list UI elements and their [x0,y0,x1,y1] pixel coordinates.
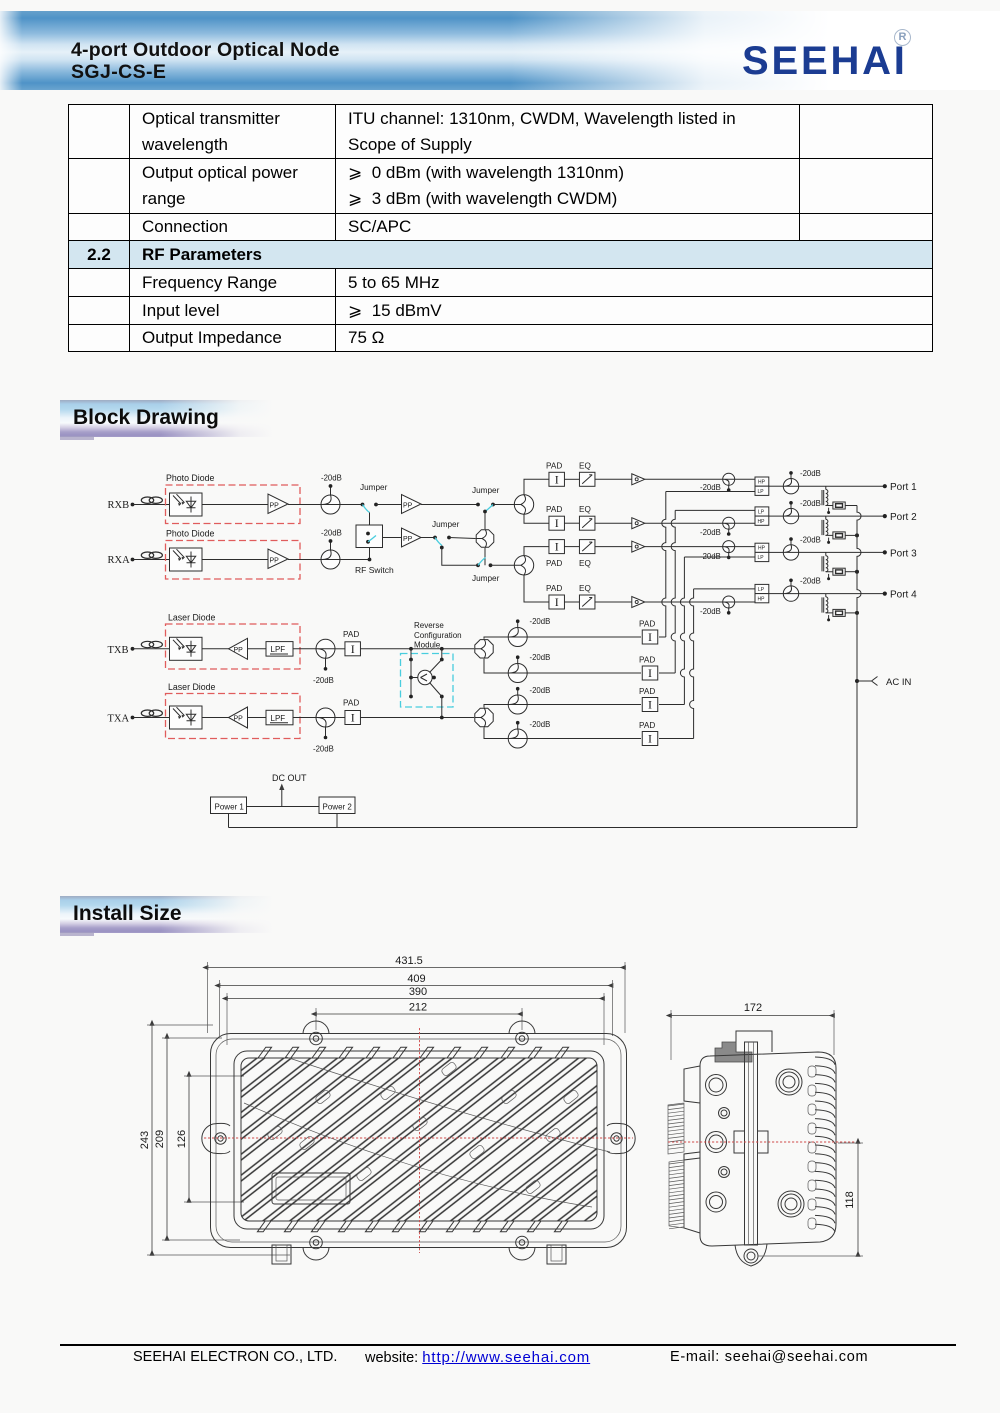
svg-text:Photo Diode: Photo Diode [166,473,215,483]
jumper3 tap dot [440,546,444,550]
AR1 stub [517,622,519,628]
wire jumper2 tap down [484,512,486,530]
DC OUT arrow [279,784,284,807]
dimension 126 [176,1076,189,1202]
svg-text:126: 126 [176,1130,188,1148]
side view right fin stack [815,1057,835,1232]
wire TXB line [133,648,170,650]
wire switch bottom to RXA line [369,548,371,560]
wire amp3 out [645,546,723,548]
att fwd 2 stub dot [727,532,731,536]
side view centerline (red) [668,1141,856,1143]
svg-text:PP: PP [234,647,244,654]
fuse F2 [833,532,845,539]
dimension 118 [844,1143,858,1256]
wire rcm circle to b3 [430,683,442,697]
front view outer shell [211,1034,627,1248]
rcm post a1 [409,658,413,662]
side view small hole lower [719,1167,730,1178]
AR2 stub [517,658,519,664]
wire amp to LPF TXA [248,717,267,719]
att port 2 stub dot [789,501,793,505]
att fwd 3 stub dot [727,556,731,560]
att fwd 1 stub [728,485,730,489]
side view main outline [700,1052,836,1246]
wire PP2 out [288,559,321,561]
laser diode LD1 [170,637,203,660]
wire H2 to AR3 [484,705,508,708]
svg-text:PAD: PAD [546,461,562,470]
extension lines left [147,1025,290,1255]
vent slot tabs bottom row [257,1221,568,1232]
att port 4 stub dot [789,579,793,583]
side view central bar [745,1042,758,1245]
wire PAD-F3 to EQ3 [565,546,580,548]
wire LPF1 to att [293,648,316,650]
wire SP2 up feed [524,547,549,556]
wire RXB input [133,504,170,506]
wire laser TXB to amp [202,648,229,650]
wire EQ3 to amp [595,546,632,548]
att port 4 stub [790,581,792,586]
attenuator rev AR2 -20dB [508,664,527,683]
front view mounting ear bottom-right [509,1236,535,1260]
attenuator rev AR3 -20dB [508,695,527,714]
wire return feed DX1 LP [666,491,755,493]
wire PP4 out [421,537,434,539]
svg-text:-20dB: -20dB [700,483,721,492]
heat sink fins (hatched) [241,1058,597,1221]
pad PAD-R2 [642,666,658,680]
svg-text:390: 390 [409,986,427,998]
low-pass filter LPF1 [266,642,293,657]
svg-text:-20dB: -20dB [530,653,551,662]
small bosses on fins [267,1061,580,1195]
reverse configuration module (cyan dashed box) [401,654,454,708]
svg-text:Laser Diode: Laser Diode [168,682,216,692]
rcm post a2 [409,676,413,680]
amplifier A2 [632,518,645,529]
transformer L2 (power choke) [822,516,833,536]
svg-text:RF Switch: RF Switch [355,565,394,575]
svg-text:-20dB: -20dB [530,617,551,626]
jumper2 post a [476,503,480,507]
svg-text:EQ: EQ [579,584,591,593]
power supply Power 1 [211,797,247,814]
wire switch out [383,537,402,539]
attenuator fwd -20dB 3 [723,541,735,553]
return bus 4 vertical (with hops) [690,589,694,739]
laser diode module TXB (dashed box) [166,624,301,669]
diplexer DX2 [755,507,769,525]
wire att fwd 3 out [735,546,755,548]
side view left stepped face [684,1066,700,1233]
attenuator fwd -20dB 2 [723,517,735,529]
AC bus junction 4 [855,611,859,615]
wire AR4 to PAD [527,738,641,740]
splitter SP2 [514,556,533,575]
svg-text:Port 3: Port 3 [890,548,917,559]
side view left fin band upper [668,1103,684,1154]
node RXA terminal [131,558,135,562]
svg-text:Jumper: Jumper [432,520,460,529]
low-pass filter LPF2 [266,710,293,725]
side view connector boss B [776,1069,802,1095]
svg-text:PP: PP [270,558,280,565]
svg-text:Configuration: Configuration [414,631,462,640]
wire PP1 out [288,504,321,506]
att fwd 4 stub dot [727,611,731,615]
fuse F3 [833,568,845,575]
wire Power1 down [228,814,230,828]
front view mounting ear bottom-left [303,1236,329,1260]
svg-text:PAD: PAD [639,687,655,696]
pad PAD-F4 [549,595,565,609]
wire laser TXA to amp [202,717,229,719]
svg-text:TXA: TXA [108,714,130,725]
side view connector boss A [706,1075,727,1096]
wire H1 to AR1 [484,637,508,639]
rcm post b3 [440,695,444,699]
extension lines top [208,962,626,1045]
wire PAD-F1 to EQ1 [565,478,580,480]
att RXA stub dot [329,539,333,543]
svg-text:RXA: RXA [108,555,131,566]
att port 3 stub [790,540,792,545]
node TXA terminal [131,716,135,720]
laser diode module TXA (dashed box) [166,694,301,739]
dimension 243 [139,1025,152,1255]
return bus 3 vertical (with hops) [680,557,684,705]
choke 1 secondary stub [828,508,830,512]
svg-text:-20dB: -20dB [530,720,551,729]
svg-text:EQ: EQ [579,461,591,470]
optical connector RXB [141,497,162,503]
wire TXA line [133,717,170,719]
wire port 4 line [799,593,884,595]
dimension 409 [220,973,613,986]
side view left fin band lower [669,1160,684,1229]
attenuator TX1 -20dB [316,639,335,658]
front view side boss right [607,1123,635,1153]
att TX1 stub [325,658,327,668]
wire att TX2 out [335,717,345,719]
wire amp2 out [645,522,723,524]
svg-text:Power 2: Power 2 [323,803,353,812]
att port 1 stub dot [789,471,793,475]
wire att fwd 1 out [735,478,755,480]
wire port 1 line [799,485,884,487]
svg-text:409: 409 [407,973,425,985]
choke 2 secondary stub [828,538,830,542]
splitter SP1 [514,495,533,514]
RF switch U1 [356,525,383,548]
transformer L1 (power choke) [822,486,833,506]
AC bus junction 2 [855,533,859,537]
RF switch post b [366,540,370,544]
wire jumper1 to switch [369,513,371,526]
wire DX1 out [769,485,783,487]
wire EQ2 to amp [595,522,632,524]
wire return bus 1 to PAD-R1 [659,636,666,638]
diplexer DX3 [755,543,769,561]
svg-text:TXB: TXB [108,645,129,656]
combiner H2 (TXA reverse) [474,708,493,727]
wire SP1 up feed [524,479,549,495]
att RXB stub dot [329,484,333,488]
AC IN junction [855,679,859,683]
wire return bus 3 to PAD-R3 [659,704,684,706]
dimension 172 [671,1002,834,1016]
svg-text:PP: PP [403,536,413,543]
equalizer EQ1 [579,472,595,486]
svg-text:EQ: EQ [579,559,591,568]
svg-text:Jumper: Jumper [472,486,500,495]
jumper1 post a [361,503,365,507]
jumper1 link (cyan) [363,505,370,513]
wire LPF2 to att [293,717,316,719]
jumper2 tap dot [483,510,487,514]
att TX2 stub [325,727,327,737]
amplifier A3 [632,541,645,552]
svg-text:118: 118 [844,1191,856,1209]
return bus 1 vertical (with hops) [662,492,666,638]
svg-text:PAD: PAD [546,505,562,514]
wire AC IN stub [857,680,871,682]
wire return feed DX3 LP [684,556,755,558]
side view connector boss E [778,1191,804,1217]
wire att TX1 out [335,648,345,650]
svg-text:PAD: PAD [639,620,655,629]
svg-text:243: 243 [139,1131,151,1149]
wire fuse F1 to AC bus [845,505,857,507]
svg-text:Jumper: Jumper [360,483,388,492]
att fwd 1 stub dot [727,488,731,492]
att port 2 stub [790,504,792,509]
wire att RXA out [340,559,369,561]
wire fuse F4 to AC bus [845,612,857,614]
wire amp4 out [645,601,723,603]
att TX2 stub dot [324,736,328,740]
attenuator rev AR4 -20dB [508,729,527,748]
rcm tap TXB b [440,647,444,651]
photo diode D2 [170,548,203,571]
attenuator fwd -20dB 4 [723,596,735,608]
side view top bracket [736,1031,772,1052]
svg-text:DC OUT: DC OUT [272,773,307,783]
choke 1 stub dot [827,511,830,514]
node TXB terminal [131,647,135,651]
svg-text:AC IN: AC IN [886,677,911,688]
svg-text:PAD: PAD [343,630,359,639]
jumper1 post b [374,503,378,507]
svg-text:-20dB: -20dB [800,469,821,478]
side view connector boss D [706,1192,726,1212]
svg-text:-20dB: -20dB [321,474,342,483]
equalizer EQ3 [579,540,595,554]
jumper3 post a [433,536,437,540]
dimension 431.5 [208,955,626,968]
wire rcm circle to b1 [430,660,442,673]
RF switch link (cyan) [368,536,376,542]
wire EQ4 to amp [595,601,632,603]
svg-text:PAD: PAD [546,559,562,568]
op-amp PP3 [402,495,422,514]
svg-text:-20dB: -20dB [800,499,821,508]
wire att RXB out [340,504,361,506]
svg-text:-20dB: -20dB [700,528,721,537]
svg-text:HP: HP [758,546,766,552]
wire fuse F3 to AC bus [845,571,857,573]
fuse F1 [833,502,845,509]
wire H1 to AR2 [484,659,508,673]
svg-text:PP: PP [270,503,280,510]
wire H2 to AR4 [484,728,508,739]
side view fin root comb [808,1066,816,1229]
wire att RXB stub [330,487,332,495]
front view side boss left [202,1123,230,1153]
amplifier A1 [632,474,645,485]
lid swing arc 2 [244,1103,592,1207]
svg-text:-20dB: -20dB [700,607,721,616]
dimension 212 [316,1002,522,1015]
front view centerline vertical (red) [419,1028,421,1253]
AC bus junction 3 [855,570,859,574]
transformer L3 (power choke) [822,552,833,572]
wire rcm drop a [410,649,412,660]
wire jumper3 tap down [442,548,477,566]
wire EQ1 to amp [595,478,632,480]
wire jumper1 to PP3 [376,504,402,506]
wire jumper3 to mid splitter [449,538,476,539]
svg-text:-20dB: -20dB [321,529,342,538]
svg-text:-20dB: -20dB [800,577,821,586]
photo diode module RXB (dashed box) [166,485,301,524]
node RXB terminal [131,503,135,507]
port 1 terminal [883,484,887,488]
wire PAD-T2 to combiner [361,717,475,719]
choke 3 stub dot [827,577,830,580]
svg-text:PAD: PAD [546,584,562,593]
vent slot tabs top row [258,1047,569,1058]
side view connector boss C [706,1132,727,1153]
svg-text:Laser Diode: Laser Diode [168,613,216,623]
attenuator fwd -20dB 1 [723,473,735,485]
label plate [272,1173,350,1204]
side view small hole upper [719,1108,730,1119]
side view bottom hinge [735,1244,767,1266]
attenuator TX2 -20dB [316,708,335,727]
wire SP2 down feed [524,575,549,602]
svg-text:PAD: PAD [639,656,655,665]
wire rcm left vertical [410,660,412,697]
wire port 2 line [799,515,884,517]
wire return feed DX2 LP [675,509,755,511]
svg-text:HP: HP [758,480,766,486]
wire PP3 out [421,504,477,506]
svg-text:PAD: PAD [639,721,655,730]
att port 3 stub dot [789,537,793,541]
AR1 stub dot [516,619,520,623]
svg-text:-20dB: -20dB [313,745,334,754]
port 3 terminal [883,550,887,554]
front view foot right [547,1245,566,1264]
attenuator RXA -20dB [321,550,340,569]
svg-text:LP: LP [758,587,765,593]
wire PAD-T1 to combiner [361,648,475,650]
pad PAD-T1 [345,642,361,656]
return bus 2 vertical (with hops) [671,510,675,673]
attenuator port3 -20dB [783,545,798,560]
attenuator rev AR1 -20dB [508,628,527,647]
AC bus vertical (with crossover hops) [857,506,861,828]
equalizer EQ2 [579,516,595,530]
wire return bus 2 to PAD-R2 [659,672,675,674]
pad PAD-R3 [642,698,658,712]
side view center cross tab [734,1131,768,1153]
wire amp to LPF TXB [248,648,267,650]
svg-text:Port 2: Port 2 [890,512,917,523]
wire AR3 to PAD [527,704,641,706]
svg-text:Reverse: Reverse [414,621,444,630]
wire att fwd 2 out [735,522,755,524]
front view centerline horizontal (red) [204,1137,633,1139]
pad PAD-F3 [549,540,565,554]
equalizer EQ4 [579,595,595,609]
att port 1 stub [790,474,792,479]
jumper3 post b [447,536,451,540]
svg-text:Port 4: Port 4 [890,590,917,601]
AR2 stub dot [516,655,520,659]
jumper2 link (cyan) [485,505,493,512]
wire DX3 out [769,551,783,553]
rcm post b2 [432,676,436,680]
jumper2 post b [491,503,495,507]
wire AR1 to PAD [527,636,641,638]
svg-text:EQ: EQ [579,505,591,514]
jumper4 link (cyan) [478,558,486,566]
lid swing arc 1 [286,1057,610,1152]
wire DX2 out [769,515,783,517]
wire amp1 out [645,478,723,480]
fuse F4 [833,609,845,616]
op-amp PPTXA (laser driver) [229,707,248,728]
AR4 stub [517,724,519,730]
svg-text:HP: HP [758,596,766,602]
dimension 390 [227,986,604,999]
jumper3 link (cyan) [435,538,442,546]
wire port 3 line [799,551,884,553]
svg-text:PAD: PAD [343,699,359,708]
svg-text:LPF: LPF [271,714,286,723]
photo diode module RXA (dashed box) [166,541,301,580]
RF switch post a [366,532,370,536]
laser diode LD2 [170,706,203,729]
wire mid splitter down [484,548,486,565]
pad PAD-T2 [345,711,361,725]
wire att fwd 4 out [735,601,755,603]
att fwd 3 stub [728,553,730,557]
photo diode D1 [170,493,203,516]
wire RXA to amp [202,559,268,561]
wire rcm drop b [441,649,443,660]
jumper4 post b [489,563,493,567]
attenuator port2 -20dB [783,508,798,523]
AR3 stub [517,690,519,696]
port 4 terminal [883,592,887,596]
svg-text:Power 1: Power 1 [215,803,245,812]
wire fuse F2 to AC bus [845,534,857,536]
